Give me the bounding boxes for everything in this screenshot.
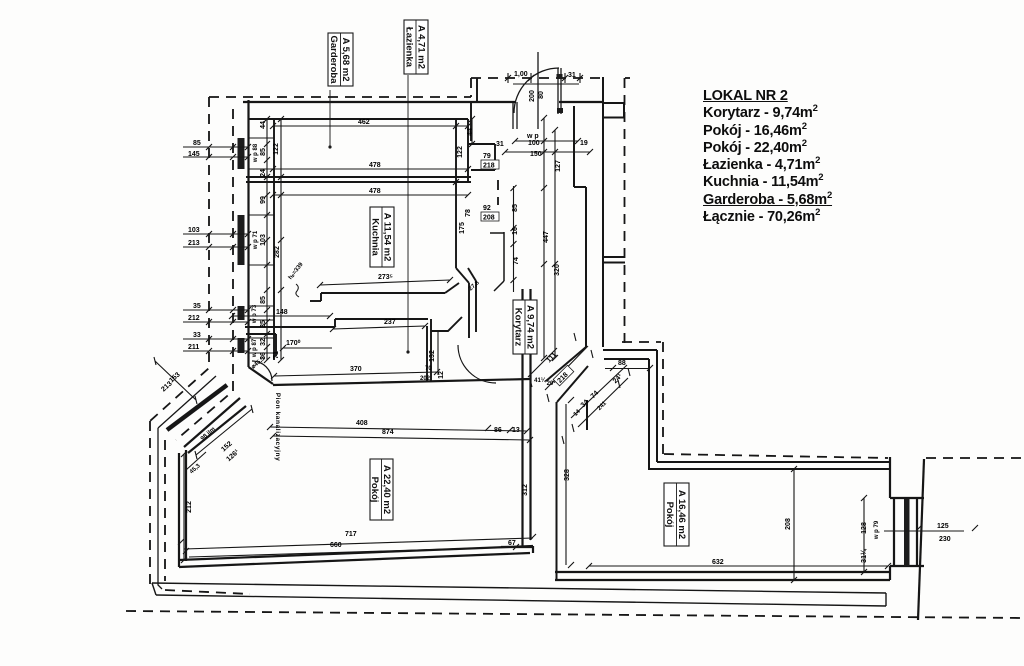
svg-text:w p: w p (526, 133, 539, 140)
svg-text:74: 74 (513, 257, 520, 265)
svg-text:478: 478 (369, 162, 381, 169)
svg-text:85: 85 (193, 140, 201, 147)
svg-text:A 16,46 m2: A 16,46 m2 (676, 490, 687, 539)
svg-text:148: 148 (276, 309, 288, 316)
svg-text:462: 462 (358, 119, 370, 126)
svg-text:202: 202 (420, 376, 431, 382)
svg-text:273⁵: 273⁵ (378, 274, 393, 281)
svg-text:14: 14 (573, 408, 582, 417)
svg-text:45,3: 45,3 (189, 463, 202, 476)
svg-text:67: 67 (508, 540, 516, 547)
svg-text:103: 103 (260, 234, 267, 246)
svg-text:Pion kanalizacyjny: Pion kanalizacyjny (274, 393, 281, 462)
svg-text:212: 212 (186, 501, 193, 513)
svg-text:71: 71 (273, 351, 280, 359)
svg-text:Garderoba: Garderoba (328, 35, 339, 84)
svg-text:213: 213 (188, 240, 200, 247)
svg-text:33: 33 (193, 332, 201, 339)
svg-text:660: 660 (330, 542, 342, 549)
svg-text:12: 12 (438, 371, 445, 379)
svg-text:125: 125 (937, 523, 949, 530)
svg-text:212: 212 (188, 315, 200, 322)
svg-text:170⁰: 170⁰ (286, 339, 301, 347)
svg-text:31: 31 (568, 72, 576, 79)
svg-text:122: 122 (273, 143, 280, 155)
svg-text:122: 122 (457, 146, 464, 158)
svg-text:Korytarz: Korytarz (513, 308, 524, 347)
svg-text:w p 71: w p 71 (253, 230, 259, 250)
svg-text:85: 85 (260, 296, 267, 304)
svg-text:Kuchnia: Kuchnia (370, 218, 381, 256)
svg-text:200: 200 (529, 90, 536, 102)
svg-text:44: 44 (467, 128, 474, 136)
svg-text:478: 478 (369, 188, 381, 195)
svg-text:20¹: 20¹ (547, 380, 556, 387)
svg-text:208: 208 (785, 518, 792, 530)
svg-text:717: 717 (345, 531, 357, 538)
svg-text:32: 32 (260, 338, 267, 346)
svg-text:hₚ=339: hₚ=339 (288, 261, 305, 281)
svg-text:111: 111 (546, 352, 559, 365)
svg-text:80: 80 (538, 91, 545, 99)
svg-text:175: 175 (459, 222, 466, 234)
svg-text:16: 16 (512, 227, 519, 235)
svg-text:Łazienka: Łazienka (404, 27, 415, 68)
svg-text:35: 35 (193, 303, 201, 310)
svg-text:100: 100 (528, 140, 540, 147)
svg-text:218: 218 (483, 163, 495, 170)
svg-text:85: 85 (260, 148, 267, 156)
svg-text:874: 874 (382, 429, 394, 436)
svg-text:78: 78 (465, 209, 472, 217)
svg-text:A 9,74 m2: A 9,74 m2 (525, 305, 536, 349)
svg-text:88: 88 (618, 360, 626, 367)
svg-text:79: 79 (483, 153, 491, 160)
svg-text:99: 99 (260, 196, 267, 204)
svg-text:211: 211 (188, 344, 199, 351)
svg-text:31: 31 (496, 141, 504, 148)
svg-text:408: 408 (356, 420, 368, 427)
svg-text:A 11,54 m2: A 11,54 m2 (382, 213, 393, 262)
svg-text:Pokój: Pokój (664, 502, 675, 528)
svg-text:70: 70 (425, 366, 432, 372)
svg-text:132: 132 (429, 350, 436, 362)
svg-text:230: 230 (939, 536, 951, 543)
svg-text:86: 86 (494, 427, 502, 434)
svg-text:85: 85 (512, 204, 519, 212)
svg-text:A 22,40 m2: A 22,40 m2 (381, 465, 392, 514)
svg-text:13: 13 (512, 427, 520, 434)
svg-text:w p 79: w p 79 (874, 520, 880, 540)
svg-text:328: 328 (564, 469, 571, 481)
svg-text:145: 145 (188, 151, 200, 158)
svg-text:24: 24 (260, 169, 267, 177)
svg-text:92: 92 (483, 205, 491, 212)
svg-text:127: 127 (555, 160, 562, 172)
svg-text:w p 87: w p 87 (252, 338, 258, 358)
svg-text:w p 88: w p 88 (253, 143, 259, 163)
svg-text:41¼: 41¼ (534, 377, 547, 384)
svg-text:Pokój: Pokój (369, 477, 380, 503)
svg-text:A 4,71 m2: A 4,71 m2 (416, 25, 427, 69)
svg-text:447: 447 (543, 231, 550, 243)
svg-text:208: 208 (483, 215, 495, 222)
svg-text:103: 103 (188, 227, 200, 234)
svg-text:312: 312 (522, 484, 529, 496)
svg-text:128: 128 (861, 522, 868, 534)
svg-text:A 5,68 m2: A 5,68 m2 (340, 37, 351, 81)
svg-text:1,00: 1,00 (514, 71, 528, 78)
svg-text:35: 35 (260, 320, 267, 328)
svg-text:44: 44 (260, 121, 267, 129)
svg-text:w p 73: w p 73 (252, 304, 258, 324)
svg-text:237: 237 (384, 319, 396, 326)
svg-text:150: 150 (530, 151, 542, 158)
svg-text:632: 632 (712, 559, 724, 566)
svg-text:370: 370 (350, 366, 362, 373)
svg-text:19: 19 (580, 140, 588, 147)
svg-text:27,8: 27,8 (468, 280, 481, 293)
svg-text:320: 320 (554, 264, 561, 276)
svg-text:31¼: 31¼ (860, 548, 868, 563)
svg-text:241: 241 (597, 400, 609, 412)
svg-text:282: 282 (274, 246, 281, 258)
